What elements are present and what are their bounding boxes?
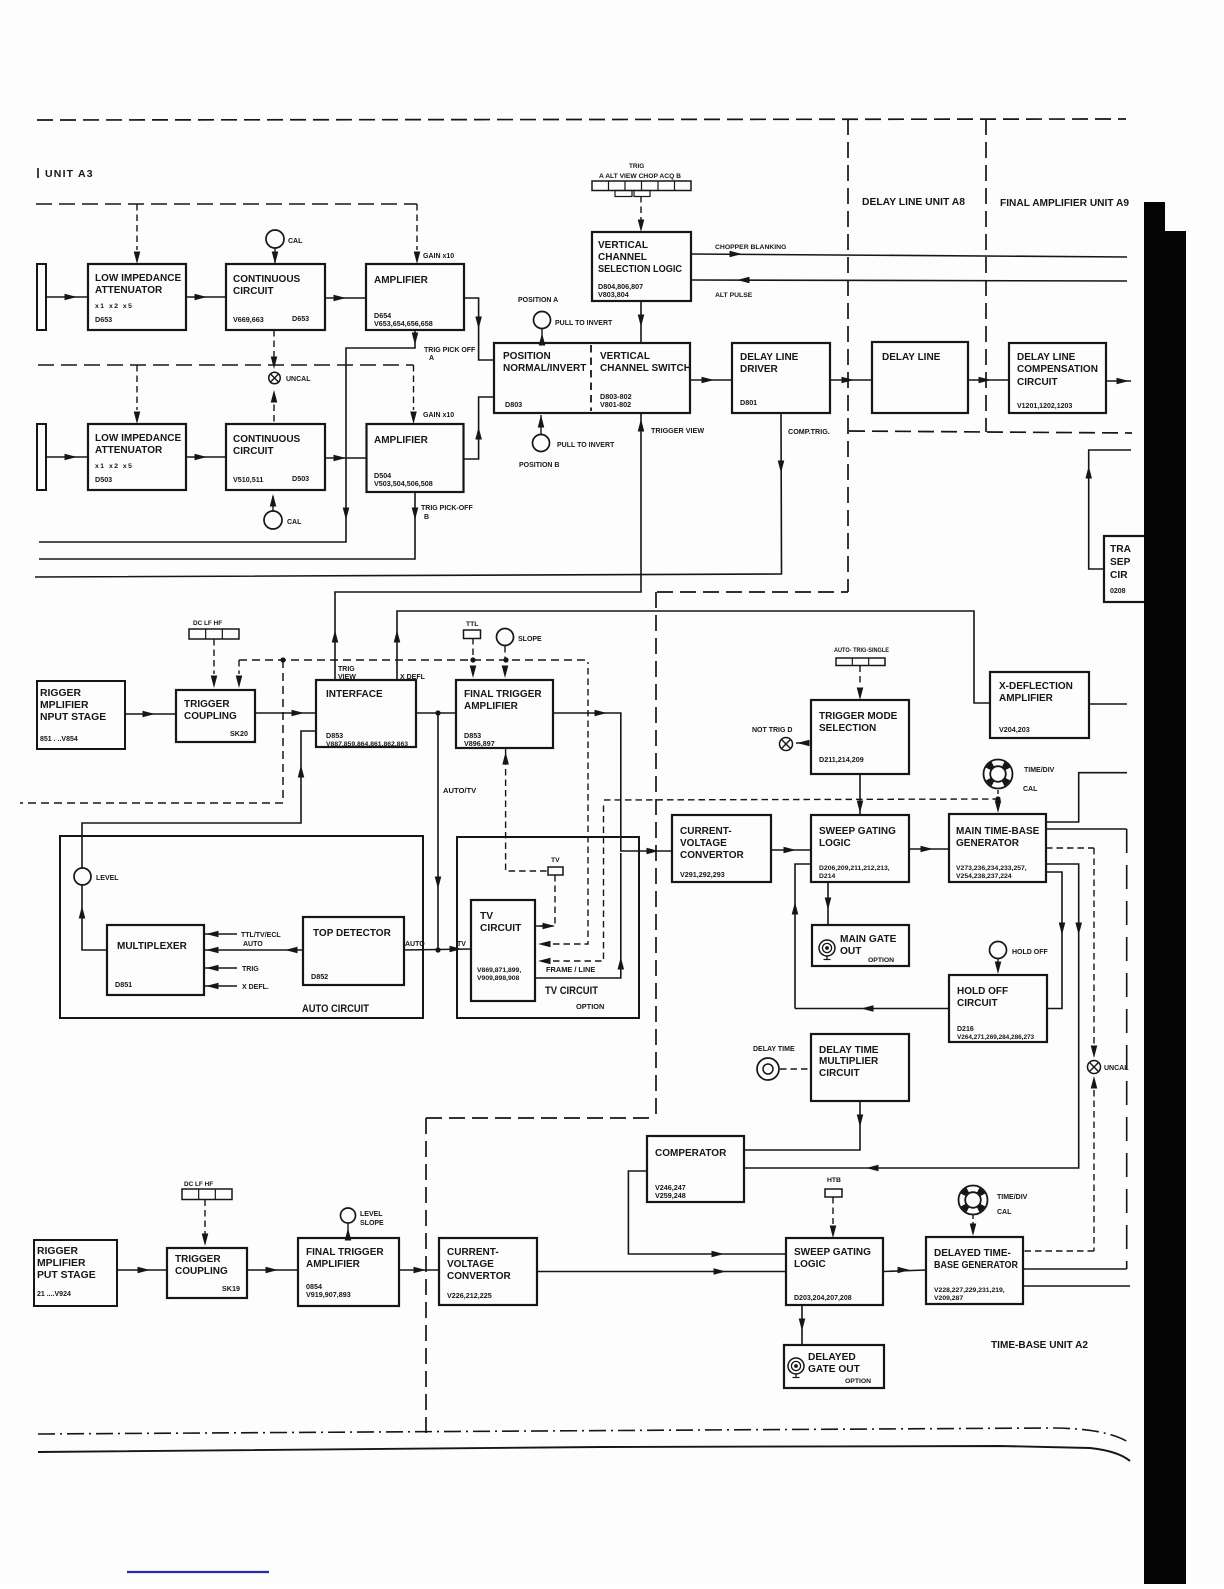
svg-text:CIR: CIR bbox=[1110, 570, 1128, 581]
svg-text:VOLTAGE: VOLTAGE bbox=[447, 1259, 494, 1270]
svg-text:AMPLIFIER: AMPLIFIER bbox=[306, 1259, 361, 1270]
svg-text:VERTICAL: VERTICAL bbox=[600, 351, 650, 362]
svg-text:TV: TV bbox=[551, 857, 560, 864]
svg-text:TRIG: TRIG bbox=[242, 966, 259, 973]
svg-text:FINAL AMPLIFIER UNIT A9: FINAL AMPLIFIER UNIT A9 bbox=[1000, 198, 1129, 209]
svg-text:D851: D851 bbox=[115, 980, 132, 989]
svg-text:21 ....V924: 21 ....V924 bbox=[37, 1291, 71, 1298]
svg-text:AMPLIFIER: AMPLIFIER bbox=[999, 693, 1054, 704]
svg-text:V909,898,908: V909,898,908 bbox=[477, 975, 520, 982]
svg-text:MULTIPLEXER: MULTIPLEXER bbox=[117, 941, 188, 952]
svg-text:SLOPE: SLOPE bbox=[518, 636, 542, 643]
svg-text:V273,236,234,233,257,: V273,236,234,233,257, bbox=[956, 865, 1027, 872]
svg-text:D216: D216 bbox=[957, 1026, 974, 1033]
svg-text:V869,871,899,: V869,871,899, bbox=[477, 967, 521, 974]
svg-text:DRIVER: DRIVER bbox=[740, 364, 779, 375]
svg-text:V653,654,656,658: V653,654,656,658 bbox=[374, 319, 433, 328]
svg-text:x1 x2 x5: x1 x2 x5 bbox=[95, 463, 133, 470]
svg-text:V1201,1202,1203: V1201,1202,1203 bbox=[1017, 403, 1072, 410]
svg-text:RIGGER: RIGGER bbox=[40, 688, 81, 699]
svg-text:CIRCUIT: CIRCUIT bbox=[957, 998, 998, 1009]
svg-text:851 . ..V854: 851 . ..V854 bbox=[40, 736, 78, 743]
svg-text:V803,804: V803,804 bbox=[598, 290, 629, 299]
svg-text:COUPLING: COUPLING bbox=[184, 711, 237, 722]
svg-text:TIME/DIV: TIME/DIV bbox=[1024, 767, 1055, 774]
svg-text:CURRENT-: CURRENT- bbox=[447, 1247, 499, 1258]
svg-text:DELAYED TIME-: DELAYED TIME- bbox=[934, 1248, 1011, 1259]
svg-text:A ALT VIEW CHOP ACQ B: A ALT VIEW CHOP ACQ B bbox=[599, 173, 681, 180]
svg-text:V801-802: V801-802 bbox=[600, 400, 631, 409]
svg-text:AUTO- TRIG-SINGLE: AUTO- TRIG-SINGLE bbox=[834, 647, 889, 654]
svg-text:DC LF HF: DC LF HF bbox=[193, 620, 222, 627]
svg-text:GAIN x10: GAIN x10 bbox=[423, 412, 454, 419]
svg-text:V919,907,893: V919,907,893 bbox=[306, 1290, 351, 1299]
svg-text:CIRCUIT: CIRCUIT bbox=[819, 1068, 860, 1079]
svg-text:V503,504,506,508: V503,504,506,508 bbox=[374, 479, 433, 488]
svg-text:V228,227,229,231,219,: V228,227,229,231,219, bbox=[934, 1287, 1005, 1294]
svg-text:POSITION B: POSITION B bbox=[519, 462, 559, 469]
svg-text:CIRCUIT: CIRCUIT bbox=[233, 286, 274, 297]
svg-text:ALT PULSE: ALT PULSE bbox=[715, 292, 753, 299]
svg-text:SELECTION: SELECTION bbox=[819, 723, 876, 734]
svg-text:D211,214,209: D211,214,209 bbox=[819, 755, 864, 764]
svg-text:COMPERATOR: COMPERATOR bbox=[655, 1148, 727, 1159]
svg-text:OPTION: OPTION bbox=[845, 1378, 871, 1385]
svg-text:LOW IMPEDANCE: LOW IMPEDANCE bbox=[95, 273, 181, 284]
svg-text:CURRENT-: CURRENT- bbox=[680, 826, 732, 837]
svg-text:ATTENUATOR: ATTENUATOR bbox=[95, 285, 163, 296]
svg-text:D653: D653 bbox=[292, 314, 309, 323]
svg-text:AMPLIFIER: AMPLIFIER bbox=[374, 275, 429, 286]
svg-text:PULL TO INVERT: PULL TO INVERT bbox=[555, 320, 613, 327]
svg-text:V669,663: V669,663 bbox=[233, 315, 264, 324]
svg-text:D852: D852 bbox=[311, 972, 328, 981]
svg-text:NOT TRIG D: NOT TRIG D bbox=[752, 727, 792, 734]
svg-text:RIGGER: RIGGER bbox=[37, 1246, 78, 1257]
svg-text:DELAY LINE UNIT A8: DELAY LINE UNIT A8 bbox=[862, 197, 965, 208]
svg-text:OPTION: OPTION bbox=[868, 957, 894, 964]
svg-text:COUPLING: COUPLING bbox=[175, 1266, 228, 1277]
svg-text:TRIG: TRIG bbox=[629, 163, 644, 170]
svg-text:CHOPPER BLANKING: CHOPPER BLANKING bbox=[715, 244, 786, 251]
svg-text:INTERFACE: INTERFACE bbox=[326, 689, 383, 700]
svg-text:MPLIFIER: MPLIFIER bbox=[40, 700, 89, 711]
svg-text:CIRCUIT: CIRCUIT bbox=[480, 923, 522, 934]
svg-text:HOLD OFF: HOLD OFF bbox=[1012, 949, 1048, 956]
svg-text:DELAY LINE: DELAY LINE bbox=[882, 352, 941, 363]
svg-text:LOW IMPEDANCE: LOW IMPEDANCE bbox=[95, 433, 181, 444]
svg-text:D206,209,211,212,213,: D206,209,211,212,213, bbox=[819, 865, 890, 872]
svg-text:V226,212,225: V226,212,225 bbox=[447, 1291, 492, 1300]
svg-text:AUTO/TV: AUTO/TV bbox=[443, 786, 477, 795]
svg-text:SK19: SK19 bbox=[222, 1284, 240, 1293]
svg-text:NORMAL/INVERT: NORMAL/INVERT bbox=[503, 363, 586, 374]
svg-text:UNCAL: UNCAL bbox=[286, 376, 311, 383]
svg-text:AUTO: AUTO bbox=[243, 941, 263, 948]
svg-text:AMPLIFIER: AMPLIFIER bbox=[464, 701, 519, 712]
svg-text:TTL: TTL bbox=[466, 621, 478, 628]
svg-text:VIEW: VIEW bbox=[338, 674, 356, 681]
svg-text:V264,271,269,284,286,273: V264,271,269,284,286,273 bbox=[957, 1034, 1035, 1041]
svg-text:TRIGGER VIEW: TRIGGER VIEW bbox=[651, 426, 704, 435]
svg-text:X DEFL.: X DEFL. bbox=[242, 984, 269, 991]
svg-text:COMP.TRIG.: COMP.TRIG. bbox=[788, 427, 830, 436]
svg-text:DELAY TIME: DELAY TIME bbox=[753, 1046, 795, 1053]
svg-text:CONVERTOR: CONVERTOR bbox=[447, 1271, 511, 1282]
svg-text:D214: D214 bbox=[819, 873, 835, 880]
svg-text:D853: D853 bbox=[326, 731, 343, 740]
svg-text:LEVEL: LEVEL bbox=[360, 1211, 383, 1218]
svg-text:GATE OUT: GATE OUT bbox=[808, 1364, 861, 1375]
svg-text:CAL: CAL bbox=[287, 519, 302, 526]
svg-text:TTL/TV/ECL: TTL/TV/ECL bbox=[241, 932, 281, 939]
svg-text:V209,287: V209,287 bbox=[934, 1295, 963, 1302]
svg-text:TRIG PICK OFF: TRIG PICK OFF bbox=[424, 347, 476, 354]
svg-text:CIRCUIT: CIRCUIT bbox=[1017, 377, 1058, 388]
svg-text:CHANNEL SWITCH: CHANNEL SWITCH bbox=[600, 363, 691, 374]
svg-text:VOLTAGE: VOLTAGE bbox=[680, 838, 727, 849]
svg-text:V291,292,293: V291,292,293 bbox=[680, 870, 725, 879]
svg-text:SK20: SK20 bbox=[230, 729, 248, 738]
svg-text:GENERATOR: GENERATOR bbox=[956, 838, 1020, 849]
svg-text:CHANNEL: CHANNEL bbox=[598, 252, 647, 263]
svg-text:V259,248: V259,248 bbox=[655, 1191, 686, 1200]
svg-text:FINAL TRIGGER: FINAL TRIGGER bbox=[306, 1247, 384, 1258]
svg-text:AUTO: AUTO bbox=[405, 941, 425, 948]
svg-text:TIME-BASE UNIT A2: TIME-BASE UNIT A2 bbox=[991, 1340, 1088, 1351]
svg-text:HOLD OFF: HOLD OFF bbox=[957, 986, 1008, 997]
svg-text:FRAME / LINE: FRAME / LINE bbox=[546, 965, 595, 974]
svg-text:COMPENSATION: COMPENSATION bbox=[1017, 364, 1098, 375]
svg-text:MAIN TIME-BASE: MAIN TIME-BASE bbox=[956, 826, 1040, 837]
svg-text:POSITION: POSITION bbox=[503, 351, 551, 362]
svg-text:D503: D503 bbox=[95, 475, 112, 484]
svg-text:CAL: CAL bbox=[288, 238, 303, 245]
svg-text:MPLIFIER: MPLIFIER bbox=[37, 1258, 86, 1269]
svg-text:CAL: CAL bbox=[997, 1209, 1012, 1216]
svg-text:HTB: HTB bbox=[827, 1177, 841, 1184]
svg-text:POSITION A: POSITION A bbox=[518, 297, 558, 304]
svg-text:PUT STAGE: PUT STAGE bbox=[37, 1270, 96, 1281]
svg-text:x1 x2 x5: x1 x2 x5 bbox=[95, 303, 133, 310]
svg-text:CAL: CAL bbox=[1023, 786, 1038, 793]
svg-text:D653: D653 bbox=[95, 315, 112, 324]
svg-text:TOP DETECTOR: TOP DETECTOR bbox=[313, 928, 392, 939]
svg-text:LOGIC: LOGIC bbox=[794, 1259, 826, 1270]
svg-text:0208: 0208 bbox=[1110, 588, 1126, 595]
svg-text:BASE GENERATOR: BASE GENERATOR bbox=[934, 1260, 1019, 1271]
svg-text:UNCAL: UNCAL bbox=[1104, 1065, 1129, 1072]
svg-text:TV: TV bbox=[480, 911, 493, 922]
svg-text:A: A bbox=[429, 355, 434, 362]
svg-text:SWEEP GATING: SWEEP GATING bbox=[794, 1247, 871, 1258]
svg-text:DC LF HF: DC LF HF bbox=[184, 1181, 213, 1188]
svg-text:SELECTION LOGIC: SELECTION LOGIC bbox=[598, 264, 682, 275]
svg-text:TRA: TRA bbox=[1110, 544, 1132, 555]
svg-text:LEVEL: LEVEL bbox=[96, 875, 119, 882]
svg-text:MULTIPLIER: MULTIPLIER bbox=[819, 1056, 879, 1067]
svg-text:TRIGGER MODE: TRIGGER MODE bbox=[819, 711, 898, 722]
svg-text:V204,203: V204,203 bbox=[999, 725, 1030, 734]
svg-text:VERTICAL: VERTICAL bbox=[598, 240, 648, 251]
svg-text:TIME/DIV: TIME/DIV bbox=[997, 1194, 1028, 1201]
svg-text:CONTINUOUS: CONTINUOUS bbox=[233, 274, 301, 285]
svg-text:DELAYED: DELAYED bbox=[808, 1352, 856, 1363]
svg-text:ATTENUATOR: ATTENUATOR bbox=[95, 445, 163, 456]
svg-text:TV CIRCUIT: TV CIRCUIT bbox=[545, 985, 598, 997]
svg-text:TRIG: TRIG bbox=[338, 666, 355, 673]
svg-text:SLOPE: SLOPE bbox=[360, 1220, 384, 1227]
svg-text:NPUT STAGE: NPUT STAGE bbox=[40, 712, 106, 723]
svg-text:D803: D803 bbox=[505, 400, 522, 409]
svg-text:D801: D801 bbox=[740, 398, 757, 407]
svg-text:CIRCUIT: CIRCUIT bbox=[233, 446, 274, 457]
svg-text:OUT: OUT bbox=[840, 946, 862, 957]
svg-text:UNIT A3: UNIT A3 bbox=[45, 168, 94, 180]
svg-text:LOGIC: LOGIC bbox=[819, 838, 851, 849]
svg-text:SWEEP GATING: SWEEP GATING bbox=[819, 826, 896, 837]
svg-text:AMPLIFIER: AMPLIFIER bbox=[374, 435, 429, 446]
svg-text:CONTINUOUS: CONTINUOUS bbox=[233, 434, 301, 445]
svg-text:OPTION: OPTION bbox=[576, 1002, 604, 1011]
svg-text:MAIN GATE: MAIN GATE bbox=[840, 934, 897, 945]
svg-text:CONVERTOR: CONVERTOR bbox=[680, 850, 744, 861]
svg-text:D503: D503 bbox=[292, 474, 309, 483]
svg-text:V896,897: V896,897 bbox=[464, 739, 495, 748]
svg-text:GAIN x10: GAIN x10 bbox=[423, 253, 454, 260]
svg-text:DELAY LINE: DELAY LINE bbox=[1017, 352, 1076, 363]
svg-text:B: B bbox=[424, 514, 429, 521]
svg-text:V254,238,237,224: V254,238,237,224 bbox=[956, 873, 1012, 880]
svg-text:TRIGGER: TRIGGER bbox=[184, 699, 230, 710]
svg-text:TV: TV bbox=[457, 941, 466, 948]
svg-text:V510,511: V510,511 bbox=[233, 475, 263, 484]
svg-text:AUTO CIRCUIT: AUTO CIRCUIT bbox=[302, 1003, 369, 1015]
svg-text:SEP: SEP bbox=[1110, 557, 1131, 568]
svg-text:FINAL TRIGGER: FINAL TRIGGER bbox=[464, 689, 542, 700]
svg-text:PULL TO INVERT: PULL TO INVERT bbox=[557, 442, 615, 449]
svg-text:X-DEFLECTION: X-DEFLECTION bbox=[999, 681, 1073, 692]
svg-text:V887,859,864,861,862,863: V887,859,864,861,862,863 bbox=[326, 741, 408, 748]
svg-text:DELAY TIME: DELAY TIME bbox=[819, 1045, 879, 1056]
svg-text:TRIG PICK-OFF: TRIG PICK-OFF bbox=[421, 505, 473, 512]
svg-text:D203,204,207,208: D203,204,207,208 bbox=[794, 1295, 852, 1302]
svg-text:TRIGGER: TRIGGER bbox=[175, 1254, 221, 1265]
svg-text:DELAY LINE: DELAY LINE bbox=[740, 352, 799, 363]
